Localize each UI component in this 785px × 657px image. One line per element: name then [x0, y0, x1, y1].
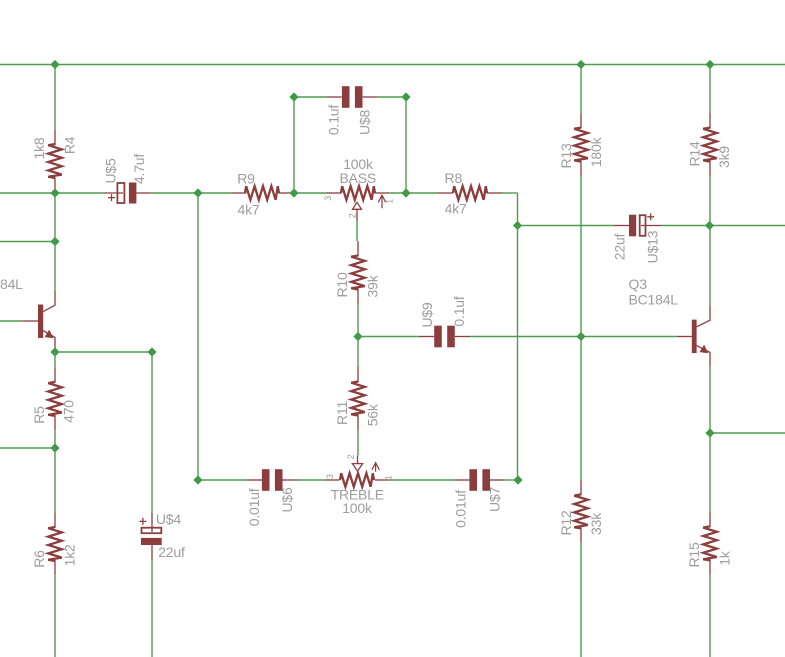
wire branch down to U$4	[151, 352, 153, 513]
TREBLE wiper arrow	[352, 464, 362, 472]
wire U$7 to corner	[505, 479, 519, 481]
junction top rail / R4 branch	[50, 60, 59, 69]
R6 bottom lead	[54, 560, 56, 575]
svg-text:R8: R8	[445, 170, 463, 186]
junction input2 / left column	[50, 237, 59, 246]
wire TREBLE pin1 to U$7	[390, 479, 455, 481]
wire BASS pin1 to R8	[390, 192, 437, 194]
svg-text:1k8: 1k8	[31, 137, 47, 159]
svg-text:R6: R6	[31, 550, 47, 568]
wire mid rail to R11	[357, 337, 359, 368]
svg-text:22uf: 22uf	[612, 233, 628, 260]
wire feedback rail to Q3 collector	[709, 226, 711, 307]
junction top rail / R13 branch	[576, 60, 585, 69]
U$8 left lead	[327, 96, 342, 98]
U$5 + mark	[108, 194, 115, 201]
svg-text:33k: 33k	[588, 512, 604, 535]
R9 right lead	[279, 192, 295, 194]
R4 bottom lead	[54, 178, 56, 193]
svg-text:U$13: U$13	[645, 230, 661, 263]
junction bottom rail left corner	[193, 475, 202, 484]
R13 top lead	[580, 113, 582, 128]
wire left edge input 3	[0, 447, 55, 449]
svg-text:3: 3	[325, 474, 335, 479]
BASS pin1 lead	[375, 192, 390, 194]
svg-text:3k9: 3k9	[716, 146, 732, 168]
wire U$6 to TREBLE pin3	[298, 479, 325, 481]
wire R12 to bottom edge	[580, 543, 582, 657]
wire junction down to R6	[54, 448, 56, 513]
svg-text:4.7uf: 4.7uf	[131, 154, 147, 184]
svg-text:84L: 84L	[0, 276, 23, 292]
U$9 left lead	[419, 336, 434, 338]
junction main rail / R4	[50, 188, 59, 197]
Q3 collector	[697, 306, 710, 327]
wire U$8 left branch down	[293, 97, 295, 193]
svg-text:R5: R5	[31, 406, 47, 424]
R12 bottom lead	[580, 528, 582, 543]
transistor Q2 base bar (BC184L)	[38, 305, 43, 339]
junction Q3 emitter / output	[705, 428, 714, 437]
wire BASS wiper to R10	[356, 221, 358, 241]
wire top rail to R13	[580, 65, 582, 114]
resistor R5 body (470)	[48, 382, 62, 416]
U$7 right lead	[490, 479, 505, 481]
wire U$5 to R9	[151, 192, 231, 194]
wire corner down to feedback rail	[517, 193, 519, 226]
wire mid rail to U$9	[358, 336, 419, 338]
resistor R6 body (1k2)	[48, 527, 62, 561]
R9 left lead	[231, 192, 246, 194]
svg-text:39k: 39k	[365, 274, 381, 297]
svg-text:56k: 56k	[365, 403, 381, 426]
svg-text:BC184L: BC184L	[629, 292, 679, 308]
U$13 right plate (hollow +)	[640, 215, 646, 236]
svg-text:U$8: U$8	[357, 110, 373, 135]
resistor R13 body (180k)	[574, 128, 588, 162]
wire to R15	[709, 433, 711, 512]
wire R9 to BASS pin3	[294, 192, 327, 194]
svg-text:0.1uf: 0.1uf	[326, 105, 342, 135]
R5 top lead	[54, 368, 56, 383]
R8 right lead	[487, 192, 502, 194]
svg-text:U$7: U$7	[487, 487, 503, 512]
junction mid rail / R13-R12 branch	[576, 332, 585, 341]
wire left branch down	[197, 193, 199, 480]
svg-text:R14: R14	[687, 141, 703, 166]
R15 bottom lead	[709, 560, 711, 575]
resistor R15 body (1k)	[703, 526, 717, 560]
resistor R10 body (39k)	[351, 256, 365, 290]
junction main rail / left branch down	[193, 188, 202, 197]
svg-text:0.1uf: 0.1uf	[451, 296, 467, 326]
U$5 right lead	[136, 192, 151, 194]
wire to R5	[54, 352, 56, 368]
wire left edge to Q2 base	[0, 320, 22, 322]
TREBLE pin1 lead	[375, 479, 390, 481]
capacitor U$6 plates (0.01uf)	[262, 469, 270, 491]
svg-text:U$4: U$4	[156, 511, 181, 527]
svg-text:4k7: 4k7	[445, 201, 467, 217]
svg-text:U$9: U$9	[419, 302, 435, 327]
wire mid rail down to R12	[580, 337, 582, 481]
R14 bottom lead	[709, 161, 711, 176]
TREBLE wiper stem	[357, 456, 359, 464]
U$13 right lead	[641, 225, 661, 227]
TREBLE direction arrow	[372, 463, 379, 472]
R11 bottom lead	[357, 415, 359, 431]
U$4 top lead	[151, 513, 153, 532]
svg-text:4k7: 4k7	[238, 202, 260, 218]
U$13 left plate (solid)	[629, 215, 636, 237]
U$4 + mark	[139, 518, 146, 525]
wire feedback rail down to bottom rail corner	[517, 226, 519, 481]
wire R10 to mid rail	[357, 304, 359, 337]
wire to U$8 left lead	[294, 96, 327, 98]
U$13 + mark	[647, 213, 654, 220]
Q2 base lead	[22, 320, 38, 322]
R13 bottom lead	[580, 161, 582, 176]
Q2 collector	[43, 291, 55, 312]
svg-text:2: 2	[346, 455, 356, 460]
Q2 emitter arrowhead	[45, 330, 54, 339]
svg-text:U$6: U$6	[279, 487, 295, 512]
svg-text:R9: R9	[237, 171, 255, 187]
BASS wiper stem	[356, 209, 358, 221]
svg-text:3: 3	[323, 196, 333, 201]
U$8 right lead	[363, 96, 378, 98]
R5 bottom lead	[54, 415, 56, 430]
junction mid rail / R10-R11	[353, 332, 362, 341]
wire R6 to bottom edge	[54, 575, 56, 657]
junction U$8 right	[401, 92, 410, 101]
junction bottom rail right corner	[513, 475, 522, 484]
junction feedback rail / R14 branch	[705, 221, 714, 230]
junction R9 / U$8 left branch	[289, 188, 298, 197]
svg-text:2: 2	[348, 213, 358, 218]
R14 top lead	[709, 113, 711, 128]
wire R14 to feedback rail	[709, 176, 711, 226]
svg-text:0.01uf: 0.01uf	[246, 488, 262, 526]
resistor R8 body (4k7)	[453, 186, 487, 200]
wire feedback rail to U$13	[518, 225, 614, 227]
Q3 emitter	[697, 346, 710, 366]
U$4 bottom lead	[151, 545, 153, 560]
U$5 left plate (hollow +)	[117, 183, 124, 203]
wire R13 down to mid rail	[580, 176, 582, 337]
U$6 left lead	[247, 479, 262, 481]
wire left column to Q2 collector	[54, 242, 56, 292]
wire U$13 to right edge	[661, 225, 785, 227]
svg-text:R13: R13	[558, 143, 574, 168]
junction Q2 emitter / branch to U$4	[50, 347, 59, 356]
BASS wiper arrow	[353, 202, 362, 209]
svg-text:R4: R4	[62, 136, 78, 154]
svg-text:1k2: 1k2	[62, 544, 78, 566]
R6 top lead	[54, 513, 56, 528]
U$9 right lead	[455, 336, 470, 338]
R10 bottom lead	[357, 289, 359, 305]
U$13 left lead	[614, 225, 629, 227]
junction top rail / R14 branch	[705, 60, 714, 69]
potentiometer BASS body (100k)	[341, 186, 375, 200]
Q2 emitter	[43, 331, 55, 352]
R11 top lead	[357, 367, 359, 383]
U$4 bottom plate (solid)	[141, 538, 162, 545]
Q3 emitter arrowhead	[700, 345, 709, 354]
capacitor U$7 plates (0.01uf)	[469, 469, 477, 491]
capacitor U$9 plates (0.1uf)	[434, 326, 442, 348]
wire top rail to R14	[709, 65, 711, 114]
svg-text:470: 470	[61, 400, 77, 423]
R8 left lead	[437, 192, 453, 194]
wire to U$6	[198, 479, 247, 481]
resistor R4 body (1k8)	[48, 144, 62, 178]
wire left edge to U$5	[0, 192, 103, 194]
wire output to right edge	[710, 432, 785, 434]
TREBLE pin3 lead	[324, 479, 339, 481]
R4 top lead	[54, 130, 56, 146]
wire R5 to junction	[54, 430, 56, 448]
wire left edge input 2	[0, 241, 55, 243]
resistor R9 body (4k7)	[245, 186, 279, 200]
U$7 left lead	[455, 479, 470, 481]
resistor R14 body (3k9)	[703, 128, 717, 162]
svg-text:1k: 1k	[716, 550, 732, 566]
R15 top lead	[709, 512, 711, 527]
junction BASS pin1 / U$8 / R8	[401, 188, 410, 197]
U$5 left lead	[103, 192, 123, 194]
wire top rail to R4	[54, 65, 56, 131]
BASS direction arrow	[378, 195, 385, 208]
resistor R12 body (33k)	[574, 494, 588, 528]
svg-text:R12: R12	[558, 510, 574, 535]
junction U$4 branch	[147, 347, 156, 356]
wire U$8 right lead to junction	[378, 96, 406, 98]
wire U$9 to Q3 base	[470, 336, 677, 338]
svg-text:R10: R10	[334, 272, 350, 297]
svg-text:R15: R15	[686, 542, 702, 567]
wire Q2 emitter to U$4 branch	[55, 351, 152, 353]
wire Q3 emitter down	[709, 366, 711, 433]
potentiometer TREBLE body (100k)	[340, 473, 374, 487]
svg-text:U$5: U$5	[103, 158, 119, 183]
R12 top lead	[580, 480, 582, 495]
Q3 base lead	[677, 336, 692, 338]
svg-text:Q3: Q3	[629, 276, 648, 292]
wire U$4 to bottom edge	[151, 560, 153, 657]
junction feedback rail left	[513, 221, 522, 230]
U$6 right lead	[283, 479, 298, 481]
junction R5 / left edge wire	[50, 443, 59, 452]
wire left column 193-241	[54, 193, 56, 242]
svg-text:100k: 100k	[342, 500, 373, 516]
transistor Q3 base bar (BC184L)	[692, 320, 697, 354]
capacitor U$8 plates (0.1uf)	[342, 86, 350, 108]
R10 top lead	[357, 241, 359, 257]
svg-text:22uf: 22uf	[158, 544, 185, 560]
wire R11 to TREBLE wiper	[357, 430, 359, 456]
svg-text:1: 1	[385, 199, 395, 204]
U$4 top plate (hollow +)	[142, 528, 162, 534]
wire R15 to bottom edge	[709, 575, 711, 657]
svg-text:0.01uf: 0.01uf	[453, 490, 469, 528]
svg-text:R11: R11	[334, 401, 350, 425]
svg-text:BASS: BASS	[340, 170, 377, 186]
wire R8 to corner	[502, 192, 518, 194]
wire U$8 right branch down	[405, 97, 407, 193]
resistor R11 body (56k)	[351, 382, 365, 416]
svg-text:180k: 180k	[588, 136, 604, 167]
junction U$8 left	[289, 92, 298, 101]
wire net VCC top rail	[0, 64, 785, 66]
BASS pin3 lead	[327, 192, 342, 194]
U$5 right plate (solid)	[129, 183, 137, 204]
